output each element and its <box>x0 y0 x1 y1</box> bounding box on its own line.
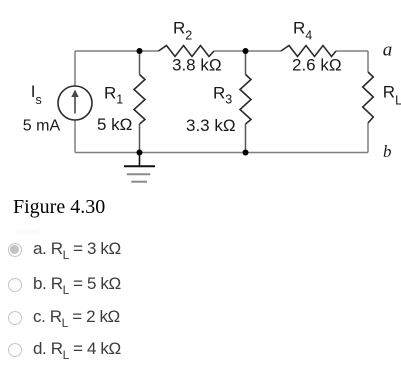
option a (selected) <box>0 240 401 260</box>
watermark <box>17 227 39 236</box>
wire R1 leads <box>139 51 141 75</box>
wire top middle (between R2 and node2) <box>214 50 281 52</box>
wire top-left horizontal <box>75 50 159 52</box>
svg-text:5 kΩ: 5 kΩ <box>97 115 132 134</box>
wire bottom horizontal <box>75 152 368 154</box>
option b <box>0 275 401 295</box>
node bottom-right junction <box>243 150 249 156</box>
svg-text:3.8 kΩ: 3.8 kΩ <box>172 56 222 75</box>
ground stub <box>139 153 141 167</box>
svg-text:R4: R4 <box>293 19 312 43</box>
svg-text:R3: R3 <box>213 84 232 107</box>
option d <box>0 340 401 360</box>
svg-text:5 mA: 5 mA <box>23 118 61 135</box>
svg-text:3.3 kΩ: 3.3 kΩ <box>186 116 236 135</box>
node top-left junction <box>137 48 143 54</box>
current source arrow <box>74 95 76 114</box>
svg-text:Is: Is <box>31 82 42 107</box>
ground bar 3 <box>131 181 147 183</box>
resistor R1 zigzag <box>134 75 145 125</box>
wire top right (R4 to corner a) <box>336 50 368 52</box>
wire right vertical lower <box>367 123 369 153</box>
wire right vertical upper <box>367 51 369 72</box>
wire R3 leads <box>245 51 247 75</box>
resistor R4 zigzag <box>281 46 336 57</box>
figure caption <box>13 196 105 219</box>
svg-text:2.6 kΩ: 2.6 kΩ <box>292 56 342 75</box>
svg-text:R2: R2 <box>173 18 192 42</box>
svg-text:RL: RL <box>383 82 401 107</box>
current source Is circle <box>58 86 92 120</box>
wire left vertical lower <box>74 120 76 153</box>
option c <box>0 308 401 328</box>
svg-text:a: a <box>383 39 393 60</box>
resistor R3 zigzag <box>240 75 251 125</box>
ground bar 1 <box>124 165 155 167</box>
ground bar 2 <box>127 173 150 175</box>
resistor R2 zigzag <box>159 46 215 57</box>
node top-right junction <box>243 48 249 54</box>
node bottom-left junction <box>137 150 143 156</box>
svg-text:b: b <box>383 142 392 161</box>
resistor RL zigzag <box>363 72 374 123</box>
svg-text:R1: R1 <box>104 84 123 107</box>
wire left vertical upper <box>74 51 76 86</box>
